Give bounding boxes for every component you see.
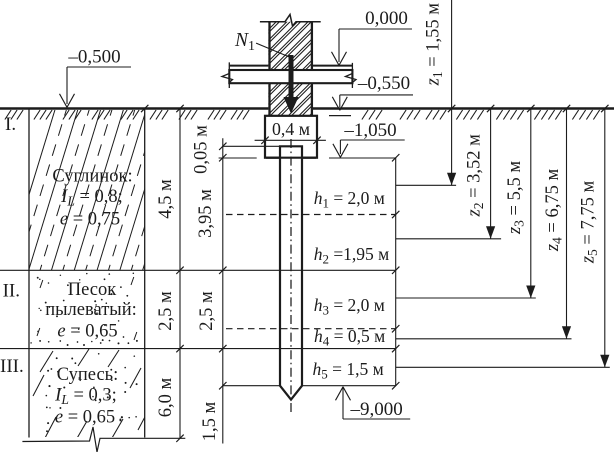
extension line pile head top xyxy=(223,145,280,147)
ground surface line right part xyxy=(313,107,614,110)
svg-text:2,5 м: 2,5 м xyxy=(156,291,176,331)
z2 dimension line xyxy=(490,109,492,239)
soil block left edge xyxy=(28,109,30,438)
floor slab band xyxy=(229,70,352,83)
wall hatch xyxy=(148,20,483,118)
svg-text:–0,550: –0,550 xyxy=(357,73,410,94)
svg-text:Песок: Песок xyxy=(68,280,116,300)
svg-text:0,05 м: 0,05 м xyxy=(192,125,212,174)
wall left edge xyxy=(268,22,270,70)
elevation mark -9,000 xyxy=(336,387,344,401)
svg-text:Супесь:: Супесь: xyxy=(57,365,119,385)
dashed sub-layer line h3/h4 xyxy=(226,328,396,330)
dim line B xyxy=(222,138,224,443)
svg-text:e = 0,75: e = 0,75 xyxy=(60,210,120,230)
svg-text:–0,500: –0,500 xyxy=(67,47,120,68)
dim line 0,4 m xyxy=(255,139,326,141)
soil boundary II/III xyxy=(0,348,396,350)
tick ground at soil block right edge xyxy=(141,105,148,112)
ground surface line left part xyxy=(0,107,268,110)
svg-text:1,5 м: 1,5 м xyxy=(200,401,220,441)
tick bottom edge at dim line A xyxy=(176,435,183,442)
N1 leader line xyxy=(256,43,292,58)
elevation mark -0,500 xyxy=(67,66,131,68)
soil block right edge xyxy=(144,109,146,438)
floor finish line left xyxy=(229,65,268,67)
dim line C xyxy=(395,157,397,385)
svg-text:–1,050: –1,050 xyxy=(343,120,396,141)
force N1 arrow xyxy=(289,55,294,98)
svg-text:–9,000: –9,000 xyxy=(349,399,402,420)
pile shaft with pointed tip xyxy=(280,146,302,399)
pile tip level line xyxy=(223,385,396,387)
svg-text:e = 0,65: e = 0,65 xyxy=(57,322,117,342)
soil layer III hatch (sandy loam) xyxy=(33,349,148,440)
dim line A (layer thicknesses) xyxy=(179,109,181,439)
elevation mark -0,550 xyxy=(340,94,413,96)
elevation mark -1,050 xyxy=(340,139,404,141)
z3 dimension line xyxy=(530,109,532,299)
extension line cap bottom xyxy=(219,157,257,159)
pile center axis dash-dot xyxy=(290,139,292,413)
z1 dimension line xyxy=(451,0,453,185)
svg-text:e = 0,65: e = 0,65 xyxy=(55,408,115,428)
elevation mark 0,000 xyxy=(339,28,412,30)
cap bottom extension to line C xyxy=(329,157,396,159)
z5 dimension line xyxy=(604,109,606,368)
svg-text:4,5 м: 4,5 м xyxy=(156,179,176,219)
svg-text:2,5 м: 2,5 м xyxy=(197,291,217,331)
soil layer I hatch (loam) xyxy=(4,103,194,277)
floor finish line right xyxy=(313,65,352,67)
soil boundary I/II xyxy=(0,269,396,271)
pile cap (grillage) xyxy=(265,116,317,158)
soil block bottom edge with break xyxy=(22,427,185,452)
soil layer II hatch (silty sand dots) xyxy=(30,273,138,346)
svg-text:пылеватый:: пылеватый: xyxy=(45,300,137,320)
svg-text:0,4 м: 0,4 м xyxy=(272,119,310,139)
pile cap bottom line over pile head xyxy=(266,157,316,159)
wall right edge xyxy=(311,22,313,70)
svg-text:III.: III. xyxy=(0,356,24,377)
z mid-layer reference lines xyxy=(396,184,456,186)
svg-text:0,000: 0,000 xyxy=(365,8,408,29)
slab break symbol left xyxy=(222,62,233,88)
svg-text:II.: II. xyxy=(3,281,20,302)
dashed sub-layer line h1/h2 xyxy=(226,214,396,216)
z4 dimension line xyxy=(566,109,568,339)
svg-text:6,0 м: 6,0 м xyxy=(156,377,176,417)
ground hatch ticks xyxy=(5,110,600,120)
slab break symbol right xyxy=(346,63,357,88)
svg-text:Суглинок:: Суглинок: xyxy=(52,167,132,187)
svg-text:I.: I. xyxy=(5,114,16,135)
wall top line with break xyxy=(260,15,321,27)
svg-text:3,95 м: 3,95 м xyxy=(196,189,216,238)
